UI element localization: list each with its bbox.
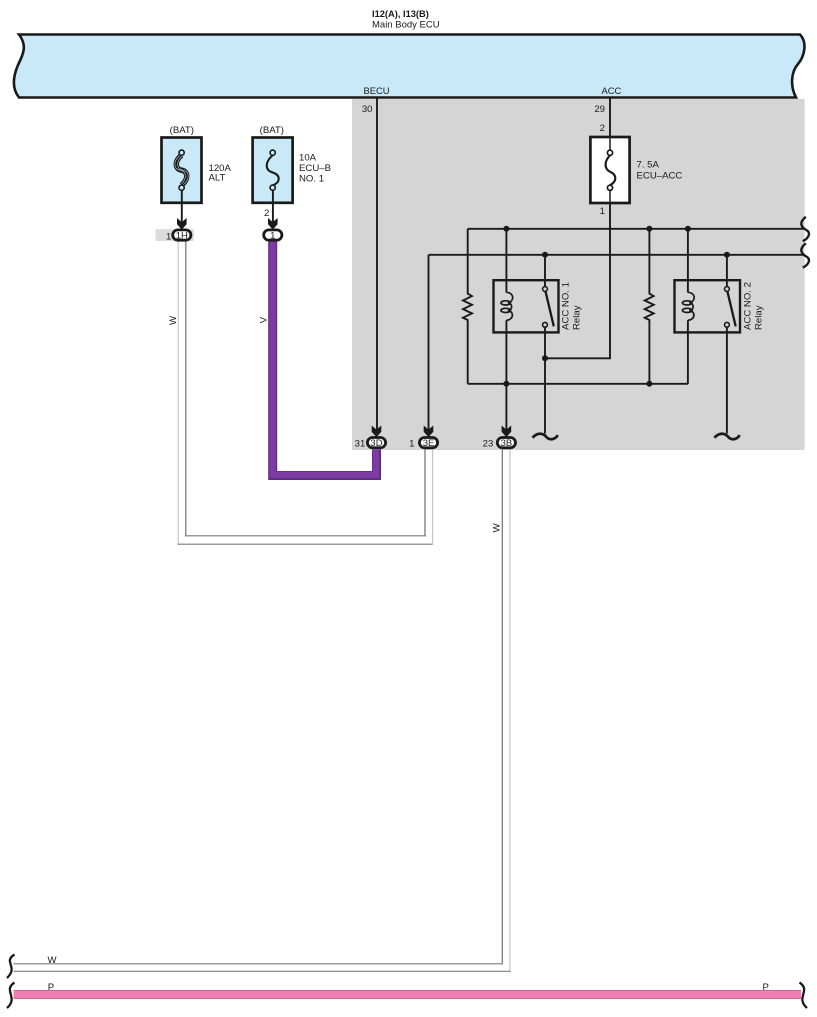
svg-text:W: W <box>48 955 58 966</box>
junction/relay block panel (gray) <box>352 99 805 450</box>
junction: line3 / wire to 3B <box>503 381 509 387</box>
svg-text:ACC NO. 1: ACC NO. 1 <box>561 282 572 330</box>
switch contacts <box>725 287 730 292</box>
svg-text:Relay: Relay <box>754 305 765 330</box>
torn edge on line2 <box>801 243 809 267</box>
coil <box>688 292 694 303</box>
fuse 10A ECU-B NO. 1 <box>253 138 293 203</box>
coil pin wire from line1 <box>687 229 689 293</box>
main body ECU bus band <box>14 35 805 98</box>
svg-text:W: W <box>168 315 179 325</box>
arrow into connector 3E <box>424 426 434 438</box>
torn edge bottom W wire <box>7 955 15 979</box>
svg-text:30: 30 <box>362 104 373 115</box>
junction: line1 / relay2 coil <box>685 226 691 232</box>
arrow into connector 1H <box>177 218 187 230</box>
switch pin down to ground <box>726 327 728 433</box>
svg-text:BECU: BECU <box>364 85 390 96</box>
relay ACC NO. 2 <box>675 229 741 434</box>
svg-text:(BAT): (BAT) <box>170 125 194 136</box>
svg-text:31: 31 <box>355 438 366 449</box>
arrow into connector 3B <box>502 426 512 438</box>
svg-text:3D: 3D <box>370 438 382 449</box>
junction: fuse ECU-ACC feed / relay1 switch to ground <box>542 355 548 361</box>
coil pin wire down to line3 <box>687 320 689 384</box>
switch blade <box>546 292 554 327</box>
svg-text:2: 2 <box>264 208 269 219</box>
svg-text:(BAT): (BAT) <box>260 125 284 136</box>
coil pin wire down to line3 and connector 3B <box>505 320 507 431</box>
wire V (purple) from connector 1 to connector 3D <box>273 240 377 476</box>
svg-text:10A: 10A <box>299 152 317 163</box>
switch pin from line2 <box>544 255 546 287</box>
switch blade <box>728 292 736 327</box>
svg-text:W: W <box>492 522 503 532</box>
wire from fuse ECU-ACC pin1 to relay ACC NO.1 switch <box>545 203 610 358</box>
wire ACC from bus to fuse ECU-ACC <box>609 98 611 138</box>
svg-text:2: 2 <box>600 123 605 134</box>
switch pin down to junction and ground <box>544 327 546 433</box>
svg-text:ALT: ALT <box>209 173 226 184</box>
wire W from connector 3B to bottom <box>14 450 511 972</box>
svg-text:ACC NO. 2: ACC NO. 2 <box>743 282 754 330</box>
svg-text:7. 5A: 7. 5A <box>637 160 660 171</box>
svg-text:ECU–B: ECU–B <box>299 163 331 174</box>
fuse 7.5A ECU-ACC <box>590 137 629 203</box>
svg-text:3E: 3E <box>423 438 435 449</box>
torn edge on line1 <box>801 217 809 241</box>
connector 3B <box>497 438 515 449</box>
wire from fusible link to connector 1H <box>181 190 183 224</box>
wire from fuse to connector 1 <box>272 190 274 224</box>
svg-text:P: P <box>48 982 54 993</box>
connector 1H <box>173 230 191 242</box>
svg-text:23: 23 <box>483 438 494 449</box>
component label ACC NO. 2 Relay <box>743 282 765 330</box>
switch contacts <box>543 287 548 292</box>
junction: line2 / relay2 switch <box>724 252 730 258</box>
svg-text:29: 29 <box>594 104 605 115</box>
junction: line1 / relay1 coil <box>503 226 509 232</box>
ground (ACC NO.1 relay) <box>533 434 558 440</box>
wire W from connector 1H to connector 3E <box>178 241 434 545</box>
ground (ACC NO.2 relay) <box>714 434 739 440</box>
bus wire line2 (relay switch supply from 3E) <box>429 254 806 256</box>
fusible link 120A ALT <box>162 138 202 203</box>
wire 3E vertical <box>428 255 430 430</box>
svg-text:P: P <box>763 982 769 993</box>
component label ACC NO. 1 Relay <box>561 282 583 330</box>
arrow into connector 1 <box>268 218 278 230</box>
svg-text:ECU–ACC: ECU–ACC <box>637 171 683 182</box>
svg-text:NO. 1: NO. 1 <box>299 174 324 185</box>
svg-text:I12(A), I13(B): I12(A), I13(B) <box>372 9 429 19</box>
bus wire line3 (bottom, to 3B) <box>468 383 688 385</box>
coil pin wire from line1 <box>505 229 507 293</box>
arrow into connector 3D <box>372 426 382 438</box>
bus wire line1 (relay coil supply) <box>468 228 805 230</box>
connector tag background 1H <box>156 229 195 241</box>
relay ACC NO. 1 <box>494 229 559 434</box>
coil <box>506 292 512 303</box>
resistor (right, parallel with ACC NO.2 relay coil) <box>645 229 654 384</box>
junction: line2 / relay1 switch <box>542 252 548 258</box>
svg-text:1: 1 <box>166 231 171 242</box>
junction: line3 / resistor 2 <box>646 381 652 387</box>
switch pin from line2 <box>726 255 728 287</box>
svg-text:1H: 1H <box>176 231 188 242</box>
wire BECU from bus to connector 3D <box>376 98 378 431</box>
svg-text:ACC: ACC <box>602 85 622 96</box>
svg-text:1: 1 <box>270 230 275 241</box>
wire P (pink) bottom band <box>14 991 802 999</box>
svg-text:3B: 3B <box>501 438 513 449</box>
junction: line1 / resistor 2 <box>646 226 652 232</box>
svg-text:1: 1 <box>600 206 605 217</box>
connector 1 <box>264 230 282 241</box>
svg-text:Relay: Relay <box>572 305 583 330</box>
torn edge pink band left <box>7 983 15 1009</box>
resistor (left, parallel with ACC NO.1 relay coil) <box>463 229 472 384</box>
svg-text:Main Body ECU: Main Body ECU <box>372 20 440 31</box>
svg-text:V: V <box>259 316 270 323</box>
torn edge pink band right <box>800 983 808 1009</box>
svg-text:1: 1 <box>409 438 414 449</box>
connector 3D <box>367 438 385 449</box>
connector 3E <box>419 438 437 449</box>
